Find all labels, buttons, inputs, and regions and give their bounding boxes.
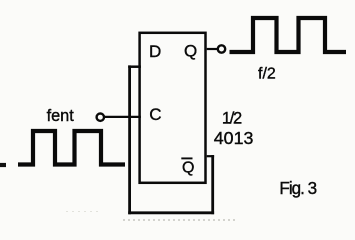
svg-text:Q: Q <box>182 160 194 177</box>
wire Q-bar output stub <box>207 155 214 157</box>
svg-text:C: C <box>149 105 161 124</box>
flip-flop U1 1/2 4013 body <box>140 33 206 183</box>
input waveform fent <box>18 131 125 165</box>
svg-text:1/2: 1/2 <box>222 110 242 128</box>
pin label Q-bar <box>181 158 194 176</box>
svg-text:fent: fent <box>47 107 75 125</box>
scan artifacts (unlabeled decorative) <box>0 163 6 167</box>
svg-text:f/2: f/2 <box>258 66 276 83</box>
svg-text:Fig. 3: Fig. 3 <box>279 179 316 198</box>
wire feedback bottom horizontal <box>128 211 214 214</box>
wire feedback right vertical <box>211 155 214 214</box>
wire feedback into D input <box>128 65 141 68</box>
terminal circle Q output <box>218 45 225 52</box>
terminal circle fent input <box>97 114 104 121</box>
wire C input <box>104 116 141 118</box>
svg-text:D: D <box>149 42 161 61</box>
output waveform f/2 <box>230 18 347 52</box>
svg-text:Q: Q <box>184 42 197 61</box>
wire feedback left vertical <box>128 65 131 214</box>
svg-text:4013: 4013 <box>214 128 254 148</box>
wire Q output <box>207 48 218 50</box>
